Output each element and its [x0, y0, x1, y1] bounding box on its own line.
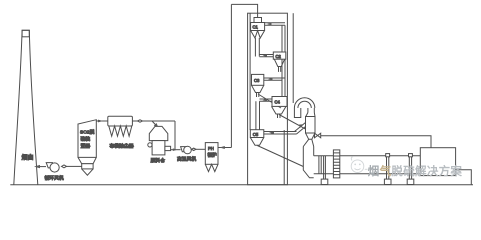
circulation fan FAN1 housing: [46, 163, 52, 168]
chute C4 to calciner: [279, 115, 306, 130]
chimney: [14, 30, 38, 184]
frame inner left line: [249, 13, 251, 130]
kiln support post 1: [324, 156, 326, 179]
kiln support post 2: [387, 157, 389, 179]
calciner cone: [306, 133, 316, 139]
duct C3 to riser: [264, 78, 285, 80]
cyclone C1 body: [251, 23, 265, 31]
calciner neck: [306, 113, 315, 117]
cyclone C3 box: [252, 74, 264, 85]
connector C5 duct to calciner vessel: [295, 123, 306, 135]
flow marker on duct: [138, 120, 143, 122]
svg-text:锅炉: 锅炉: [208, 152, 218, 159]
duct C1 to C2: [265, 23, 285, 25]
duct C5 to calciner: [264, 132, 297, 135]
wire silo to fan: [171, 149, 181, 151]
svg-text:原料仓: 原料仓: [151, 157, 166, 164]
silo side circle: [148, 143, 152, 147]
wire tower apex to bag filter: [96, 120, 108, 122]
svg-text:SO2脱: SO2脱: [80, 129, 95, 136]
kiln hood box: [420, 148, 455, 176]
C2 label: [276, 54, 282, 59]
flow marker after high temp fan: [192, 148, 196, 150]
silo outlet box: [165, 146, 171, 150]
label 循环风机: [45, 175, 64, 182]
wire chimney inlet line: [36, 166, 46, 168]
arrow on C1-C2 duct: [267, 23, 272, 26]
smoke chamber (kiln inlet): [303, 147, 313, 178]
arrow silo to fan: [173, 148, 177, 151]
svg-text:C5: C5: [253, 132, 259, 137]
high temp fan circle: [184, 146, 192, 154]
frame inner right line: [283, 130, 285, 185]
wire fan to boiler: [196, 148, 205, 150]
watermark text 烟气脱硫解决方案: [368, 164, 463, 178]
duct C2 to left: [260, 55, 274, 57]
C5 label: [253, 132, 259, 137]
preheater frame: [248, 13, 288, 185]
C5 funnel: [250, 138, 263, 146]
svg-text:C4: C4: [275, 100, 281, 105]
wire vertical from top line to boiler: [230, 4, 232, 147]
ground line: [10, 184, 473, 186]
C1 twin cones: [251, 31, 265, 39]
roller cap post 3: [409, 154, 413, 157]
watermark icon circle: [351, 157, 367, 173]
arrow on C5 duct: [269, 131, 274, 134]
arrow into chimney: [34, 165, 40, 168]
arrow into boiler: [220, 146, 225, 149]
branch arrow into silo dome: [152, 121, 158, 127]
cooler step: [456, 170, 472, 185]
chimney top cap: [22, 30, 29, 37]
kiln tire ring: [333, 150, 339, 178]
smoke chamber flare: [303, 139, 313, 146]
calciner vessel: [306, 117, 316, 134]
chimney label 烟囱: [22, 154, 34, 162]
circulation fan FAN1 circle: [50, 163, 59, 172]
gooseneck left leg: [294, 108, 300, 118]
high temp fan housing: [181, 147, 186, 152]
gooseneck arch: [294, 98, 314, 108]
label 布袋除尘器: [110, 143, 134, 150]
svg-text:C2: C2: [276, 54, 282, 59]
chute C3 to C4: [258, 94, 281, 108]
boiler box PH: [205, 143, 218, 165]
C3 funnel: [252, 85, 264, 92]
chute C5 to smoke chamber: [257, 146, 303, 167]
svg-text:C1: C1: [253, 25, 259, 30]
svg-text:烟气脱硫解决方案: 烟气脱硫解决方案: [368, 164, 463, 178]
kiln support foot 2: [384, 179, 391, 184]
riser C2 down pair: [282, 25, 285, 96]
tertiary air bowtie valve: [315, 133, 321, 138]
cyclone C2 box: [273, 52, 286, 59]
C1 label: [253, 25, 259, 30]
cyclone C1 outlet box: [254, 18, 262, 23]
C4 funnel: [272, 106, 287, 114]
frame outer right duct line: [292, 13, 294, 103]
kiln support foot 1: [321, 179, 328, 184]
svg-text:置器: 置器: [81, 144, 91, 150]
arrow on C3 duct: [268, 78, 273, 81]
silo body: [152, 141, 165, 155]
label 高温风机: [177, 155, 196, 162]
pipes C4 duct down to C5: [256, 101, 260, 129]
kiln end cap rings: [319, 156, 321, 174]
raw material silo dome: [149, 126, 168, 140]
C2 funnel: [274, 59, 284, 66]
wire fan to tower: [67, 165, 82, 167]
C1 dip pipes: [255, 38, 259, 57]
arrow on calciner inlet: [299, 124, 304, 128]
tower label SO2脱硫装置: [80, 129, 95, 150]
SO2 tower bottom cone: [82, 169, 93, 175]
duct C4 to left: [260, 99, 272, 101]
label 原料仓: [151, 157, 166, 164]
kiln support foot 3: [407, 179, 414, 184]
wire bag filter to riser junction: [132, 120, 175, 122]
SO2 tower outlet box: [82, 164, 93, 169]
svg-text:PH: PH: [208, 146, 214, 151]
arrow on C4 duct: [263, 99, 268, 102]
svg-text:循环风机: 循环风机: [45, 175, 64, 182]
arrow on C2 duct: [263, 54, 268, 57]
C4 label: [275, 100, 281, 105]
kiln shell: [314, 156, 421, 174]
kiln support post 3: [409, 157, 411, 179]
SO2 tower body: [78, 120, 96, 158]
boiler hoppers: [205, 164, 218, 171]
svg-text:烟囱: 烟囱: [22, 154, 34, 162]
C3 pipe: [257, 93, 259, 98]
C4 pipe: [278, 114, 281, 118]
SO2 tower funnel: [78, 157, 96, 163]
bag filter box: [108, 116, 133, 126]
wire riser down to fan line: [174, 121, 176, 150]
C3 label: [254, 78, 260, 83]
boiler label: [208, 146, 218, 159]
cyclone C4 box: [272, 97, 287, 107]
wire boiler inlet from tower top line: [218, 147, 231, 149]
roller cap post 2: [386, 154, 390, 157]
svg-text:硫装: 硫装: [81, 136, 91, 143]
wire top horizontal to C1 riser: [231, 4, 257, 17]
arrow on tower outlet duct: [98, 120, 103, 123]
svg-text:C3: C3: [254, 78, 260, 83]
bag filter hoppers: [109, 126, 132, 136]
cyclone C5 box: [250, 130, 263, 138]
svg-text:布袋除尘器: 布袋除尘器: [110, 143, 134, 150]
flow marker after fan: [62, 165, 67, 168]
C2 pipe: [279, 67, 281, 72]
svg-text:高温风机: 高温风机: [177, 155, 196, 162]
tertiary air duct: [321, 136, 431, 148]
gooseneck right leg: [308, 108, 314, 113]
